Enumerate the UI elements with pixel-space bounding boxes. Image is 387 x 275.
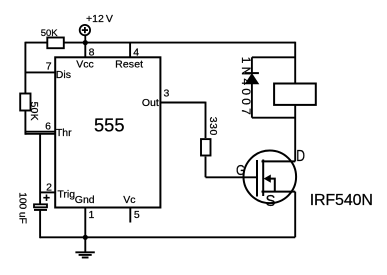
wire left rail bbox=[24, 42, 26, 135]
wire Trig branch vertical bbox=[39, 134, 41, 204]
svg-text:330: 330 bbox=[207, 117, 219, 136]
svg-text:G: G bbox=[236, 163, 245, 179]
resistor R1 50K horizontal bbox=[47, 38, 64, 49]
svg-text:1: 1 bbox=[89, 209, 95, 221]
wire resistor 330 to gate bbox=[205, 157, 207, 178]
wire out down to resistor 330 bbox=[205, 102, 207, 138]
svg-text:Reset: Reset bbox=[115, 59, 143, 71]
wire pin 1 Gnd bbox=[84, 208, 86, 238]
Q1 gate bar bbox=[256, 160, 258, 197]
wire pin 8 Vcc bbox=[84, 43, 86, 58]
resistor R3 330 bbox=[201, 139, 211, 155]
wire gate lead bbox=[206, 176, 258, 178]
svg-text:2: 2 bbox=[46, 181, 52, 193]
resistor R2 50K vertical bbox=[20, 94, 30, 111]
wire pin 3 Out bbox=[160, 102, 205, 104]
wire right rail relay to drain bbox=[294, 105, 296, 161]
svg-text:555: 555 bbox=[94, 114, 125, 135]
svg-text:4: 4 bbox=[133, 46, 139, 58]
svg-text:Vcc: Vcc bbox=[76, 59, 94, 71]
ground symbol bbox=[75, 237, 94, 257]
Q1 channel bar bbox=[262, 160, 264, 197]
wire pin 7 Dis bbox=[25, 71, 55, 73]
wire diode lower vertical bbox=[251, 84, 253, 118]
svg-text:7: 7 bbox=[46, 61, 52, 73]
svg-text:100 uF: 100 uF bbox=[16, 192, 27, 224]
wire capacitor to bottom rail bbox=[39, 210, 41, 238]
svg-text:3: 3 bbox=[164, 87, 170, 99]
wire pin 2 Trig bbox=[40, 191, 55, 193]
Q1 source lead bbox=[262, 191, 296, 193]
capacitor C1 100uF polarized bbox=[34, 195, 50, 210]
wire pin 5 Vc stub bbox=[129, 208, 131, 223]
relay K1 coil box bbox=[274, 84, 316, 105]
IC U1 555 timer body bbox=[55, 57, 160, 207]
wire source to bottom rail bbox=[294, 192, 296, 238]
wire diode branch bottom bbox=[252, 117, 295, 119]
Q1 body diode arrow bbox=[264, 175, 271, 183]
wire bottom ground rail bbox=[40, 236, 295, 238]
svg-text:Vc: Vc bbox=[123, 194, 135, 206]
node junction dot at supply bbox=[83, 40, 88, 45]
svg-text:D: D bbox=[296, 148, 305, 165]
wire pin 4 Reset bbox=[129, 43, 131, 58]
Q1 body circle bbox=[243, 151, 296, 204]
svg-text:Thr: Thr bbox=[56, 127, 72, 139]
wire Thr to Trig bend bbox=[25, 133, 55, 135]
svg-text:Gnd: Gnd bbox=[75, 194, 95, 206]
wire right rail down to relay bbox=[294, 42, 296, 84]
transistor Q1 IRF540N MOSFET bbox=[243, 151, 296, 204]
svg-text:50K: 50K bbox=[41, 28, 59, 39]
wire diode anode-cathode vertical bbox=[251, 57, 253, 73]
wire diode branch top bbox=[252, 56, 295, 58]
node junction dot at ground bbox=[83, 235, 88, 240]
Q1 drain lead bbox=[262, 160, 296, 162]
svg-text:50K: 50K bbox=[28, 102, 39, 121]
diode D1 1N4007 bbox=[245, 73, 260, 84]
Q1 body connection bbox=[270, 179, 275, 192]
svg-text:5: 5 bbox=[134, 209, 140, 221]
svg-text:IRF540N: IRF540N bbox=[310, 192, 373, 209]
svg-text:6: 6 bbox=[45, 120, 51, 132]
svg-text:8: 8 bbox=[89, 46, 95, 58]
svg-text:Out: Out bbox=[142, 97, 159, 109]
svg-text:S: S bbox=[266, 193, 276, 210]
svg-text:+12 V: +12 V bbox=[86, 13, 113, 25]
power +12V supply symbol bbox=[80, 25, 90, 43]
wire top rail +12V net bbox=[25, 42, 295, 44]
svg-text:Dis: Dis bbox=[56, 69, 71, 81]
wire pin 6 Thr bbox=[25, 131, 55, 133]
svg-text:Trig: Trig bbox=[57, 189, 75, 201]
